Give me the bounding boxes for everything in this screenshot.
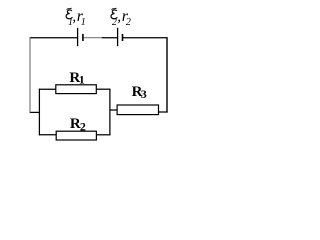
svg-text:2: 2 bbox=[126, 17, 131, 28]
svg-text:3: 3 bbox=[141, 87, 147, 101]
svg-text:,: , bbox=[117, 9, 121, 25]
svg-text:,: , bbox=[72, 9, 76, 25]
svg-text:1: 1 bbox=[81, 17, 86, 28]
svg-text:2: 2 bbox=[80, 120, 86, 134]
svg-text:2: 2 bbox=[112, 17, 117, 28]
svg-text:1: 1 bbox=[79, 73, 85, 87]
